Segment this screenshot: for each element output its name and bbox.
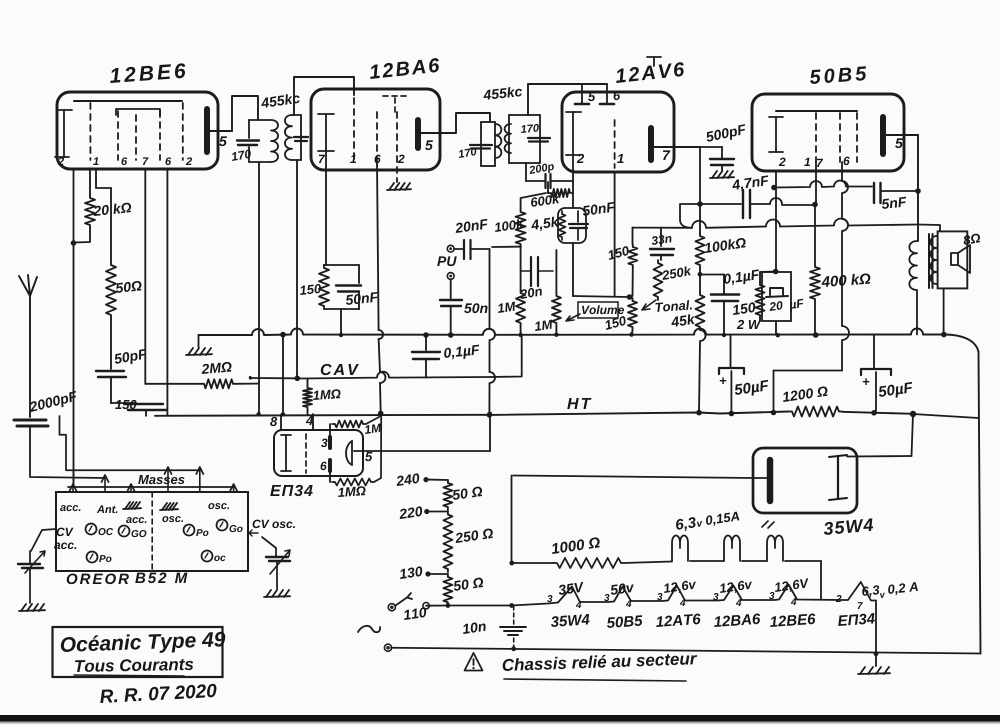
speaker cone [951, 245, 970, 273]
label 1M EP34 bottom [338, 486, 366, 497]
EP34 dashed [305, 434, 307, 473]
wire 5nF to plate node [881, 190, 918, 192]
wire pin6 to filter cap [774, 370, 843, 372]
capacitor 10n dashed [513, 606, 515, 624]
output transformer secondary coil [931, 236, 937, 284]
node 01uF bus [722, 333, 726, 337]
label 12BE6 [109, 63, 186, 83]
wire transformer top link [918, 225, 940, 232]
capacitor 50n PU [450, 279, 452, 298]
wire HT to 35W4 plate [912, 414, 914, 456]
tube 50B5 envelope [752, 94, 904, 171]
wire plate to 500pF [700, 146, 722, 148]
label 5nF [881, 197, 907, 209]
label pin5 EP34 [365, 452, 372, 461]
label 50B5 [809, 66, 867, 84]
IFT1 primary bottom wire [249, 161, 271, 163]
output transformer primary coil [909, 241, 917, 290]
resistor 250k [660, 255, 662, 260]
label Masses [138, 475, 184, 484]
wire IFT1 sec to grid dashed [353, 98, 355, 160]
coil Po left [87, 552, 98, 563]
terminal 240 [423, 477, 428, 482]
12BA6 anode bar [415, 120, 421, 148]
12BE6 pin 5 label [219, 136, 227, 146]
node chain bottom [874, 651, 879, 656]
label 50nF box [582, 202, 616, 216]
label 150 2W [732, 302, 756, 315]
IFT2 secondary box [509, 115, 540, 163]
IFT1 secondary coil [285, 115, 292, 160]
ground EP34 end [875, 654, 877, 666]
arrow volume [566, 314, 580, 321]
wire CAV U right [490, 335, 522, 377]
resistor 150 tank [324, 264, 326, 266]
label 12,6V c [774, 578, 810, 594]
wire pin1 jog [96, 169, 111, 188]
label 150 pot upper [607, 246, 630, 260]
capacitor 20nF [454, 248, 463, 250]
label 1200 Ohm [782, 386, 828, 402]
wire EP34 pin6 1M [329, 471, 331, 482]
capacitor 20n [520, 247, 522, 290]
wire primary bottom to bus [916, 290, 918, 335]
title box [53, 627, 223, 677]
terminal 220 [424, 509, 429, 514]
wire tonal line [633, 219, 919, 228]
label PU [437, 256, 456, 266]
node 400k bottom [813, 332, 819, 338]
label CV left [57, 528, 74, 536]
node CAV ift [295, 376, 301, 382]
wire between windings [690, 560, 724, 562]
arrow tonal [642, 300, 656, 310]
label 1M first [497, 302, 516, 313]
coil Po right [184, 525, 195, 536]
resistor 1M second [555, 250, 557, 293]
resistor 20k [89, 169, 91, 195]
label 20uF [769, 301, 783, 311]
wire pin7 down [699, 147, 701, 203]
warning triangle [465, 653, 483, 671]
wire screen bypass line [774, 181, 872, 188]
heater winding 2 [724, 536, 740, 562]
node 20uF bus [776, 333, 780, 337]
wire CV acc hook [31, 529, 56, 551]
label 100kOhm tone [704, 237, 747, 253]
selector lever [396, 593, 413, 606]
12BE6 cathode [63, 110, 65, 157]
12AV6 pin6 bar [600, 103, 614, 106]
12BA6 cathode [325, 114, 327, 170]
wire HT right end [913, 414, 979, 418]
label CAV [321, 364, 359, 375]
capacitor 200p [526, 180, 544, 182]
arrow pin ant [104, 478, 106, 492]
EP34 pin3 bar [328, 437, 332, 448]
EP34 lens [346, 441, 352, 465]
names under chain [550, 614, 589, 627]
wire 2000pF down [30, 426, 105, 478]
label 4,5k [530, 216, 560, 232]
35W4 plate I [837, 456, 839, 499]
node pot bottom [629, 332, 633, 336]
label 20nF [454, 219, 488, 233]
label osc right [208, 503, 229, 509]
arrow pin a1 [72, 487, 74, 492]
label 20 kOhm [93, 202, 132, 216]
label 33n [651, 234, 672, 245]
12AV6 pin7 wire [651, 146, 700, 148]
label 455kc IFT2 [483, 86, 523, 100]
node 50B5 grid [812, 202, 818, 208]
capacitor 20uF symbol [766, 288, 788, 297]
variable capacitor CV osc [266, 556, 288, 558]
node chain taps [446, 603, 451, 608]
tube 12AV6 envelope [562, 92, 674, 172]
label Volume box [578, 302, 618, 318]
value 170 IFT2 sec [521, 124, 540, 133]
capacitor 50uF first [719, 368, 744, 374]
label 150 left [115, 400, 136, 409]
potentiometer volume lower [628, 298, 637, 330]
wire pin cathode 12BE6 down [73, 169, 75, 243]
12AV6 pin1 dashed [614, 120, 616, 168]
wire 50B5 pin6 down [842, 162, 849, 371]
label 1000 Ohm [551, 537, 601, 554]
capacitor 50uF second [861, 369, 891, 375]
terminal PU top [447, 245, 454, 252]
label 50uF second [878, 382, 914, 400]
plug terminal top [388, 604, 395, 611]
node 1M bus dots [518, 333, 522, 337]
wire plate to IFT1 [232, 96, 258, 131]
capacitor 0,1uF second [698, 272, 703, 277]
wire 50uF1 top [730, 335, 732, 367]
resistor 1000 Ohm [512, 562, 555, 564]
12AV6 pin1 label [617, 154, 623, 163]
IFT1 secondary right side [300, 115, 302, 160]
label 12,6V b [719, 579, 753, 595]
right border wire [979, 352, 981, 654]
label HT [567, 398, 591, 409]
wire EP34 pin5 [354, 450, 490, 452]
node bus 170cap [280, 332, 286, 338]
ground 500pF [721, 165, 723, 170]
label 50 Ohm top [452, 486, 483, 500]
50B5 pin5 label [895, 138, 903, 148]
label 10n [462, 621, 486, 634]
wire avc stub [492, 246, 521, 248]
12BA6 grid dashed pin2 [396, 112, 398, 178]
node speaker return [941, 332, 947, 338]
node 20k join [71, 240, 77, 246]
node HT jog [771, 410, 777, 416]
bus CAV line [250, 372, 490, 379]
label 6,3v 0,15A [675, 517, 697, 532]
heater winding 1 [672, 536, 688, 562]
wire pin6 12BE6 down [166, 169, 168, 416]
coil oc right [202, 551, 213, 562]
label 50V [610, 582, 635, 595]
capacitor 50pF [96, 370, 124, 372]
label 220 [398, 506, 423, 519]
capacitor 500pF [710, 158, 734, 160]
12BE6 screen bracket [116, 109, 160, 115]
label 50uF first [734, 380, 770, 398]
resistor 250 Ohm [443, 512, 452, 573]
IFT1 primary coil [271, 120, 278, 162]
antenna [29, 296, 31, 417]
mini ground acc [125, 502, 130, 509]
12BE6 grid dashed pin7 [135, 115, 137, 160]
label 12BA6 [369, 58, 440, 79]
label pin4 [306, 416, 313, 425]
node 50n bus [448, 332, 454, 338]
capacitor 33n [660, 228, 662, 246]
terminal 110 [423, 603, 429, 609]
resistor 45k body [696, 292, 705, 330]
12AV6 grid bar [572, 112, 574, 172]
label 240 [395, 473, 420, 486]
IFT2 primary box [481, 122, 495, 166]
label 2000pF [28, 391, 78, 415]
wire tank down [340, 309, 342, 335]
label 150 tank [299, 284, 321, 295]
bus HT line [155, 412, 789, 416]
output transformer core [928, 234, 930, 288]
node EP34 pin5 HT [488, 412, 492, 416]
capacitor 0,1uF first [423, 332, 429, 338]
resistor 50 Ohm bottom [443, 574, 452, 605]
node screen HT [378, 411, 384, 417]
speaker frame [938, 231, 968, 288]
arrow pin osc1 [167, 470, 169, 492]
label 455kc IFT1 [260, 93, 300, 109]
wire masses line 2 [68, 486, 234, 488]
label 50nF tank [345, 292, 379, 305]
label 1M second [534, 320, 553, 331]
50B5 pin numbers [779, 158, 786, 166]
node tank bus [339, 333, 343, 337]
50B5 pin5 wire [883, 134, 918, 136]
capacitor 50nF in box [577, 211, 579, 222]
IFT1 primary top wire [249, 119, 271, 121]
12BE6 anode bar [204, 109, 210, 152]
node 10n bottom [511, 646, 516, 651]
tube 12BA6 envelope [311, 89, 440, 170]
resistor 50 Ohm top [443, 480, 452, 510]
coil Go right [217, 520, 228, 531]
label Tonal [655, 300, 692, 312]
label 130 [399, 566, 423, 579]
12BE6 pin 5 wire [207, 130, 232, 132]
node 1000ohm left [509, 561, 514, 566]
wire chain end down [875, 601, 877, 654]
label 35W4 [823, 518, 873, 535]
label 50n PU [464, 303, 487, 313]
50B5 pin6 dashed [839, 113, 841, 162]
IFT1 primary cap 170 [248, 120, 250, 138]
label 2M [201, 362, 232, 374]
label acc block [60, 505, 80, 511]
tube 12BE6 envelope [57, 92, 218, 169]
12BA6 top dashed [383, 95, 410, 97]
label 50pF [113, 349, 148, 367]
wire IFT1 secondary down [296, 160, 298, 376]
12AV6 pin5 bar [575, 103, 589, 106]
bus HT pin risers [280, 415, 282, 431]
12BE6 grid 1 dashed [89, 103, 91, 160]
label 50 Ohm [115, 281, 142, 294]
terminal PU bottom [447, 273, 454, 280]
label B52M [135, 573, 187, 584]
coil OC [86, 524, 97, 535]
wire 12AV6 grid down [572, 172, 574, 208]
wire masses feed [73, 470, 75, 487]
label 100k [494, 219, 524, 233]
label OREOR [67, 574, 129, 585]
labels 3 4 pins [547, 595, 552, 602]
ground CV osc [266, 590, 271, 597]
node pot wiper [627, 294, 633, 300]
wire IFT1 primary down [258, 162, 260, 414]
12AV6 grid cell box [558, 208, 586, 243]
wire IFT1 sec top [294, 77, 354, 115]
wire 50B5 grid pins down [815, 162, 817, 204]
node cathode line [771, 185, 777, 191]
capacitor 5nF [873, 183, 875, 203]
wire junction to 4,7nF [700, 203, 741, 205]
label 0,1uF second [723, 269, 760, 287]
12AV6 pin2 label [577, 154, 584, 163]
resistor 400k [814, 205, 816, 265]
label 0,1uF first [444, 344, 481, 360]
wire 20uF to bus [775, 321, 777, 335]
wire secondary bottom [943, 289, 945, 335]
label 150 pot lower [604, 316, 627, 330]
wire CV osc down [262, 537, 276, 548]
wire PU line down [489, 249, 495, 415]
value 170 IFT1 [231, 149, 252, 161]
EP34 pin6 bar [328, 460, 332, 471]
wire cathode bundle down [73, 243, 75, 487]
capacitor 150 left [111, 402, 135, 404]
12BA6 pin numbers [319, 155, 325, 163]
node 12AV6 plate junction [697, 201, 703, 207]
ground chassis left [198, 335, 200, 347]
12BE6 grid dashed pin6 [117, 111, 119, 160]
label 35V [558, 582, 585, 595]
wire 170cap bus to HT [282, 335, 284, 414]
label plus 50uF1 [720, 377, 727, 384]
50B5 internal grid line [776, 110, 857, 112]
title date [100, 684, 217, 704]
label Ant block [97, 505, 118, 513]
label 20n [519, 286, 542, 299]
12BA6 pin5 label [425, 140, 433, 150]
12AV6 pin5 pin6 labels [588, 92, 595, 101]
label 6,3v 0,2A [862, 585, 880, 598]
wire 50uF2 top [873, 335, 875, 369]
terminal 130 [425, 571, 430, 576]
IFT1 secondary tuning cap [294, 136, 308, 138]
wire tonal jog [680, 204, 700, 228]
12AV6 pin7 label [663, 150, 670, 160]
capacitor 2000pF [14, 419, 46, 422]
plug squiggle [358, 626, 380, 632]
heater chain line [426, 582, 876, 606]
note chassis relie [502, 652, 697, 671]
label 250 Ohm [454, 528, 493, 543]
capacitor 50nF tank [324, 264, 359, 266]
wire IFT2 sec bottom [525, 163, 527, 181]
wire masses vertical a [60, 416, 67, 470]
label plus 50uF2 [863, 378, 870, 385]
resistor 2M [145, 383, 201, 385]
resistor 50 Ohm [110, 188, 112, 262]
wire pin7 12BE6 down [144, 169, 146, 384]
heater winding 3 [767, 536, 783, 562]
arrow pin osc2 [199, 470, 201, 492]
block OREOR box [56, 492, 248, 571]
12BE6 internal plate line [74, 100, 182, 102]
50B5 pin2g dashed [856, 113, 858, 162]
node EP34 risers [256, 412, 260, 416]
12AV6 anode bar [648, 128, 654, 160]
12AV6 top T mark [653, 57, 655, 66]
wire 4,7nF to 50B5 grid [750, 203, 770, 205]
scan edge bar [0, 715, 1000, 722]
wire 50B5 cathode down [775, 171, 777, 271]
label 45k [670, 314, 695, 328]
arrow pin cvosc [233, 487, 235, 492]
arrow CV osc [249, 530, 258, 536]
label 500pF [705, 124, 747, 145]
12BA6 pin5 wire to IFT2 [418, 113, 490, 133]
12BA6 pin2 ground [396, 178, 398, 182]
resistor 45k [699, 206, 701, 233]
12BE6 pin numbers [93, 157, 98, 165]
wire 12AV6 pin1 down [614, 172, 616, 297]
bus chassis line [199, 329, 979, 353]
label 250k [661, 266, 692, 281]
block divider dashed [151, 492, 153, 571]
12AV6 top wire [528, 83, 607, 85]
arrow pin acc [130, 487, 132, 492]
wire plate vertical [917, 135, 919, 241]
coil GO [119, 526, 130, 537]
wire 35W4 cathode line [753, 477, 770, 479]
node plate feed [915, 188, 921, 194]
label 400 kOhm [821, 273, 871, 287]
50B5 anode bar [880, 117, 886, 154]
IFT2 primary coil [495, 124, 501, 158]
wire winding to chain [820, 561, 822, 599]
12BE6 pin 2 label [58, 157, 64, 165]
wire 12BA6 cathode down [325, 170, 327, 265]
mini ground osc [162, 503, 167, 510]
label 8 Ohm [963, 233, 981, 245]
value 170 IFT2 [458, 147, 477, 158]
wire jog to HT [773, 371, 775, 413]
label 12,6V a [663, 579, 697, 595]
resistor 1M first [516, 290, 525, 326]
label 600k [530, 194, 560, 207]
label pin8 [270, 417, 277, 426]
tick marks winding3 [762, 521, 774, 528]
wire 12BA6 screen down [377, 163, 381, 413]
